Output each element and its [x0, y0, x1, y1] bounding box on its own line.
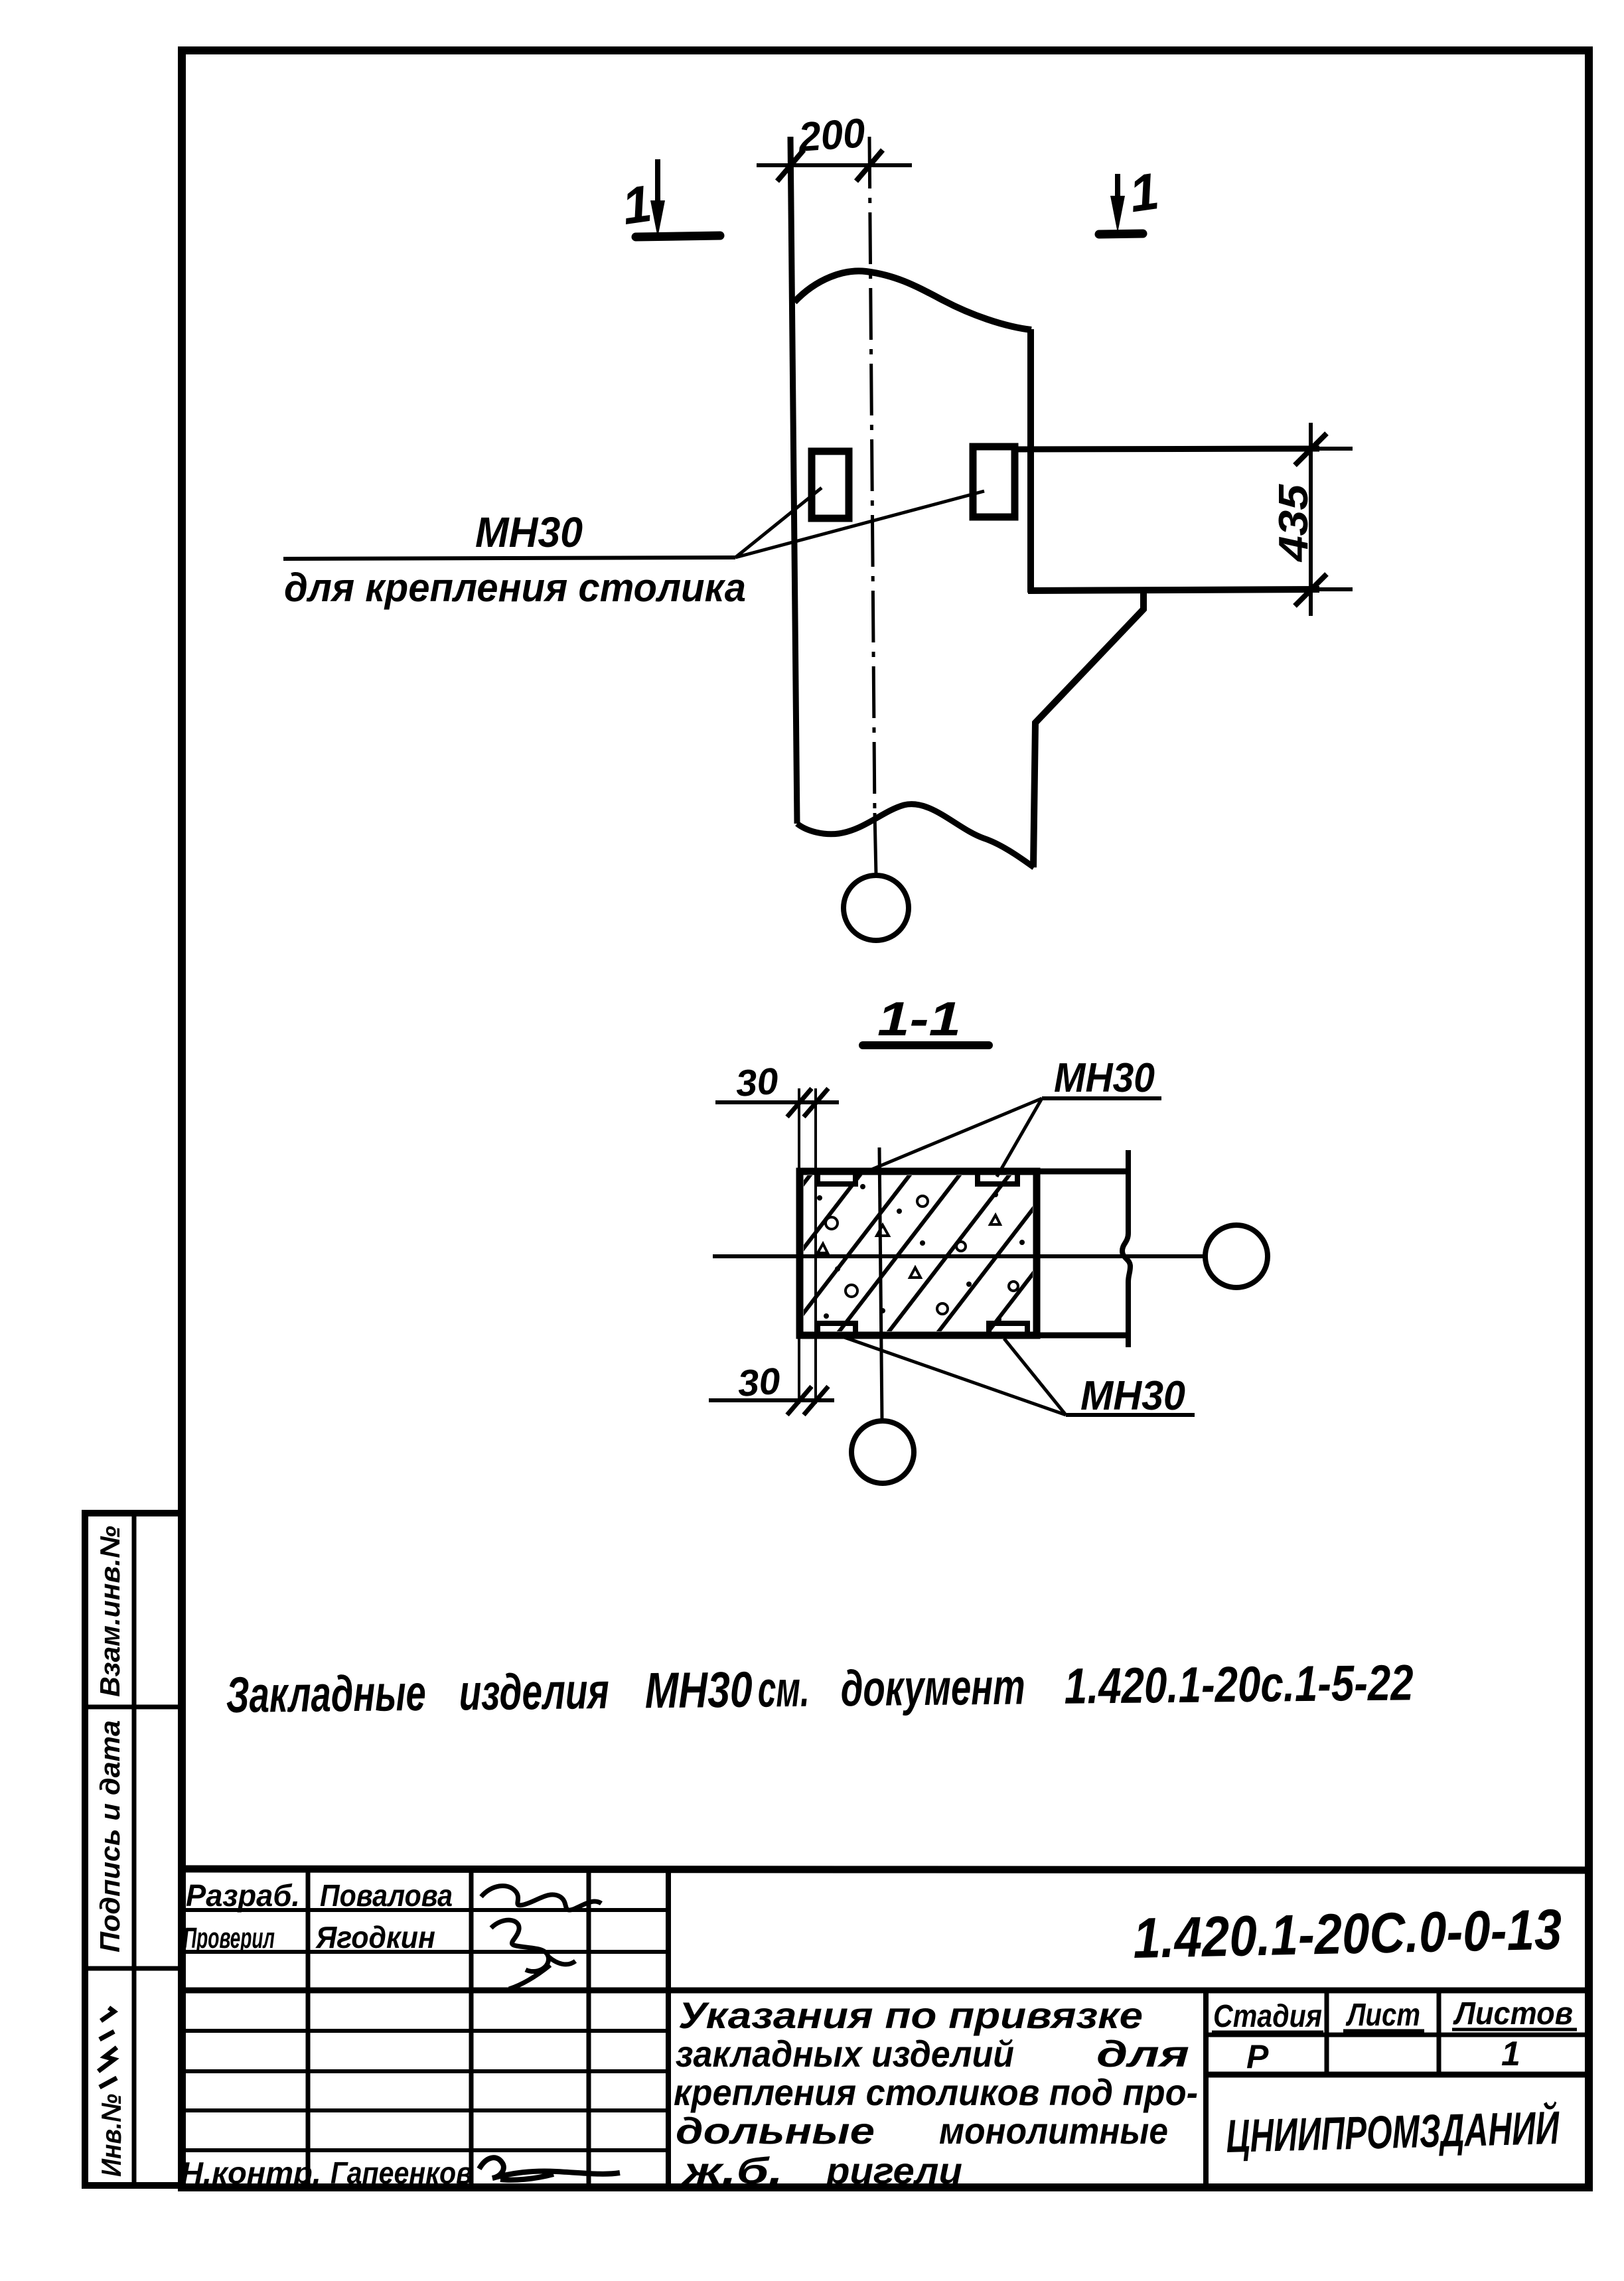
svg-text:200: 200	[796, 110, 867, 161]
leader to left plate	[735, 488, 822, 557]
section marker 1 (left): arrow	[655, 159, 660, 203]
svg-text:Повалова: Повалова	[320, 1878, 453, 1913]
title block row line r3 (below doc number)	[182, 1988, 1589, 1994]
leader to right plate	[735, 491, 984, 557]
leader to bottom-right plate	[1004, 1339, 1066, 1415]
section marker 1 (right): bar	[1099, 234, 1143, 234]
column bottom break wave	[797, 804, 1034, 867]
svg-text:ЦНИИПРОМЗДАНИЙ: ЦНИИПРОМЗДАНИЙ	[1225, 2100, 1560, 2162]
svg-text:Н.контр.: Н.контр.	[181, 2156, 321, 2190]
label MH30 top underline	[1042, 1096, 1161, 1100]
dimension 435: extension top	[1319, 447, 1353, 451]
dimension 435: tick top	[1295, 433, 1327, 465]
vertical axis line (section)	[879, 1147, 882, 1421]
svg-text:30: 30	[736, 1360, 781, 1404]
list column line	[1437, 1990, 1441, 2075]
svg-text:435: 435	[1271, 483, 1317, 563]
column right edge	[1027, 329, 1034, 593]
svg-text:Стадия: Стадия	[1213, 1999, 1322, 2034]
dimension 30 top: ticks	[787, 1088, 812, 1117]
title block row line r6	[182, 2108, 668, 2112]
column left edge	[790, 137, 797, 824]
title block row line r7	[182, 2148, 668, 2152]
plate MH30 top-left (section)	[818, 1171, 855, 1184]
svg-text:Разраб.: Разраб.	[186, 1878, 300, 1913]
svg-text:30: 30	[734, 1060, 779, 1104]
stadia header underrow line	[1206, 2033, 1589, 2037]
column top break wave	[794, 271, 1031, 330]
section title underline	[863, 1041, 989, 1049]
dimension 200: dim line	[757, 163, 912, 167]
svg-text:закладных изделийдля: закладных изделийдля	[676, 2033, 1189, 2075]
svg-text:Гапеенков: Гапеенков	[331, 2156, 473, 2190]
side column frame	[85, 1513, 181, 2185]
label MH30 bottom underline	[1066, 1413, 1195, 1417]
section concrete outline	[800, 1171, 1037, 1335]
title block column line c1	[306, 1869, 311, 2187]
leader line MH30 shelf	[283, 557, 735, 559]
stadia column line	[1325, 1990, 1329, 2075]
leader to top-left plate	[857, 1098, 1042, 1175]
axis circle bottom	[844, 875, 909, 940]
svg-text:Листов: Листов	[1453, 1996, 1573, 2031]
svg-text:Взам.инв.№: Взам.инв.№	[94, 1526, 125, 1697]
title block column line c3	[587, 1869, 591, 2187]
svg-text:Подпись и дата: Подпись и дата	[94, 1720, 125, 1952]
plate MH30 bottom-right (section)	[989, 1323, 1027, 1335]
svg-text:МН30: МН30	[475, 508, 583, 556]
embedded plate MH30 left (elevation)	[812, 451, 849, 518]
svg-text:Указания по привязке: Указания по привязке	[678, 1994, 1143, 2036]
embedded plate MH30 right (elevation)	[973, 447, 1015, 517]
dimension 30 bottom: dim line	[709, 1398, 834, 1402]
horizontal axis line	[713, 1254, 1205, 1258]
svg-text:1.420.1-20С.0-0-13: 1.420.1-20С.0-0-13	[1132, 1897, 1562, 1970]
signature 2	[491, 1920, 575, 1989]
section marker 1 (right): arrow	[1115, 174, 1120, 198]
dimension 30 top: dim line	[715, 1100, 839, 1104]
extension line left	[798, 1088, 800, 1404]
svg-text:МН30: МН30	[1080, 1373, 1185, 1419]
side column divider vertical	[132, 1513, 137, 2185]
stadia block bottom line	[1206, 2072, 1589, 2078]
svg-text:для крепления столика: для крепления столика	[284, 565, 746, 610]
svg-text:1-1: 1-1	[877, 993, 961, 1046]
title block top line	[182, 1869, 1589, 1870]
svg-text:Проверил: Проверил	[183, 1922, 275, 1954]
svg-text:Лист: Лист	[1345, 1998, 1420, 2033]
plate MH30 bottom-left (section)	[818, 1323, 855, 1335]
column axis centerline	[869, 137, 875, 816]
svg-text:Ягодкин: Ягодкин	[315, 1920, 435, 1954]
dimension 435: dim line	[1309, 423, 1313, 616]
leader to bottom-left plate	[844, 1337, 1066, 1415]
side cell3 handwritten mark	[98, 2008, 117, 2087]
signature 3	[479, 2158, 620, 2180]
beam top edge	[1015, 449, 1319, 449]
extension line plate edge	[814, 1088, 817, 1404]
leader to top-right plate	[997, 1098, 1042, 1177]
section marker 1 (left): bar	[636, 236, 720, 237]
svg-text:Инв.№: Инв.№	[96, 2094, 127, 2177]
svg-text:МН30: МН30	[1054, 1055, 1155, 1101]
dimension 30 bottom: ticks	[787, 1386, 812, 1415]
signature 1	[481, 1886, 601, 1911]
concrete hatch	[687, 1171, 1160, 1335]
beam section bottom edge	[1037, 1333, 1128, 1339]
column notch below beam	[1033, 591, 1144, 867]
title block row line r2	[182, 1950, 668, 1954]
title block row line r1	[182, 1908, 668, 1912]
beam section top edge	[1037, 1169, 1128, 1175]
svg-text:1: 1	[1501, 2035, 1520, 2073]
title block row line r5	[182, 2069, 668, 2073]
dimension 200: tick right	[856, 150, 883, 181]
title block column line c5 (stadia block left)	[1203, 1990, 1209, 2187]
side column divider h2	[85, 1966, 181, 1971]
plate MH30 top-right (section)	[978, 1171, 1017, 1184]
beam cut right edge with break jog	[1122, 1150, 1130, 1347]
dimension 435: tick bottom	[1295, 574, 1327, 606]
title block column line c4	[666, 1869, 671, 2187]
title block column line c2	[469, 1869, 474, 2187]
beam bottom edge	[1028, 589, 1319, 591]
svg-text:Р: Р	[1246, 2038, 1269, 2075]
side column divider h1	[85, 1705, 181, 1710]
dimension 200: tick left	[777, 150, 804, 181]
axis circle right	[1205, 1225, 1268, 1288]
dimension 435: extension bottom	[1319, 587, 1353, 591]
svg-text:крепления столиков под про-: крепления столиков под про-	[674, 2071, 1198, 2113]
title block row line r4	[182, 2029, 668, 2033]
axis circle bottom (section)	[851, 1421, 914, 1483]
